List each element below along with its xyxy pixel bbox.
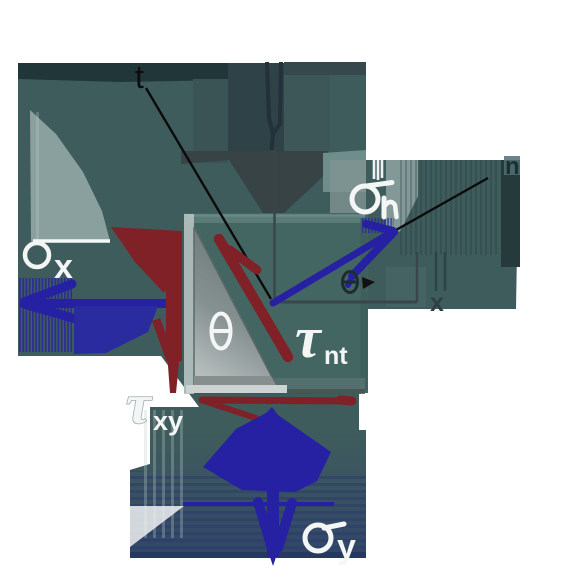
svg-text:xy: xy	[153, 406, 183, 436]
medium dark zone left of column	[193, 79, 228, 163]
main teal chalkboard blob	[18, 63, 520, 558]
sigma_y blue arrow	[183, 407, 334, 566]
bottom band horizontal stripes	[130, 470, 366, 558]
bottom band dark navy edge	[130, 552, 366, 558]
right patch streak texture	[398, 160, 498, 255]
medium dark zone right of column	[284, 62, 330, 151]
small black angle arrowhead	[362, 277, 375, 289]
white streaks in light wedge	[32, 112, 44, 241]
label y glyph	[267, 62, 281, 150]
white leftover line	[33, 239, 110, 243]
svg-text:x: x	[430, 289, 444, 317]
svg-text:n: n	[505, 153, 520, 180]
tau_nt red arrow on hypotenuse	[219, 239, 288, 357]
x axis corner tick	[416, 252, 419, 302]
white notch streaks above sigma_n	[374, 160, 382, 180]
triangle bottom dark strip	[194, 376, 276, 385]
dark double line above x label	[436, 252, 445, 291]
y axis line	[273, 150, 276, 298]
stress element square	[184, 213, 368, 394]
light area around sigma_n label	[330, 160, 366, 245]
label sigma_n	[352, 183, 397, 218]
dark strip along top edge right of column	[284, 62, 366, 75]
svg-text:y: y	[337, 528, 356, 566]
bottom band light vertical streaks	[139, 410, 183, 538]
label theta in triangle	[212, 314, 231, 349]
t axis line	[146, 88, 271, 299]
gray wedge triangle	[194, 227, 276, 385]
dark column around y axis	[228, 63, 284, 152]
bottom band blue-teal gradient	[130, 430, 366, 558]
tau_xy left red arrow	[111, 227, 182, 393]
right patch lighter bottom-left zone	[386, 267, 426, 307]
dark top band	[18, 63, 232, 82]
svg-text:t: t	[135, 59, 144, 95]
right patch light corner	[386, 160, 418, 232]
svg-text:x: x	[54, 248, 73, 286]
label sigma_y	[305, 524, 344, 551]
light wedge left	[30, 110, 110, 241]
lighter patch right of column	[323, 150, 366, 192]
triangle bottom highlight	[186, 385, 287, 393]
svg-text:τ: τ	[295, 305, 323, 370]
tau_xy bottom red arrow	[202, 400, 352, 418]
label sigma_x	[25, 243, 49, 267]
sigma_x blue arrow	[19, 278, 166, 354]
right patch dark streak column	[501, 160, 520, 267]
sigma_n blue arrow	[273, 218, 394, 303]
x axis line	[274, 301, 417, 304]
label theta at x axis	[343, 272, 358, 293]
svg-text:τ: τ	[126, 374, 153, 436]
halo behind n label	[504, 156, 520, 175]
svg-text:nt: nt	[324, 342, 348, 370]
dark trapezoid under y arrow	[181, 151, 328, 213]
n axis line	[396, 178, 488, 230]
white fray wedge bottom-left	[130, 506, 184, 547]
